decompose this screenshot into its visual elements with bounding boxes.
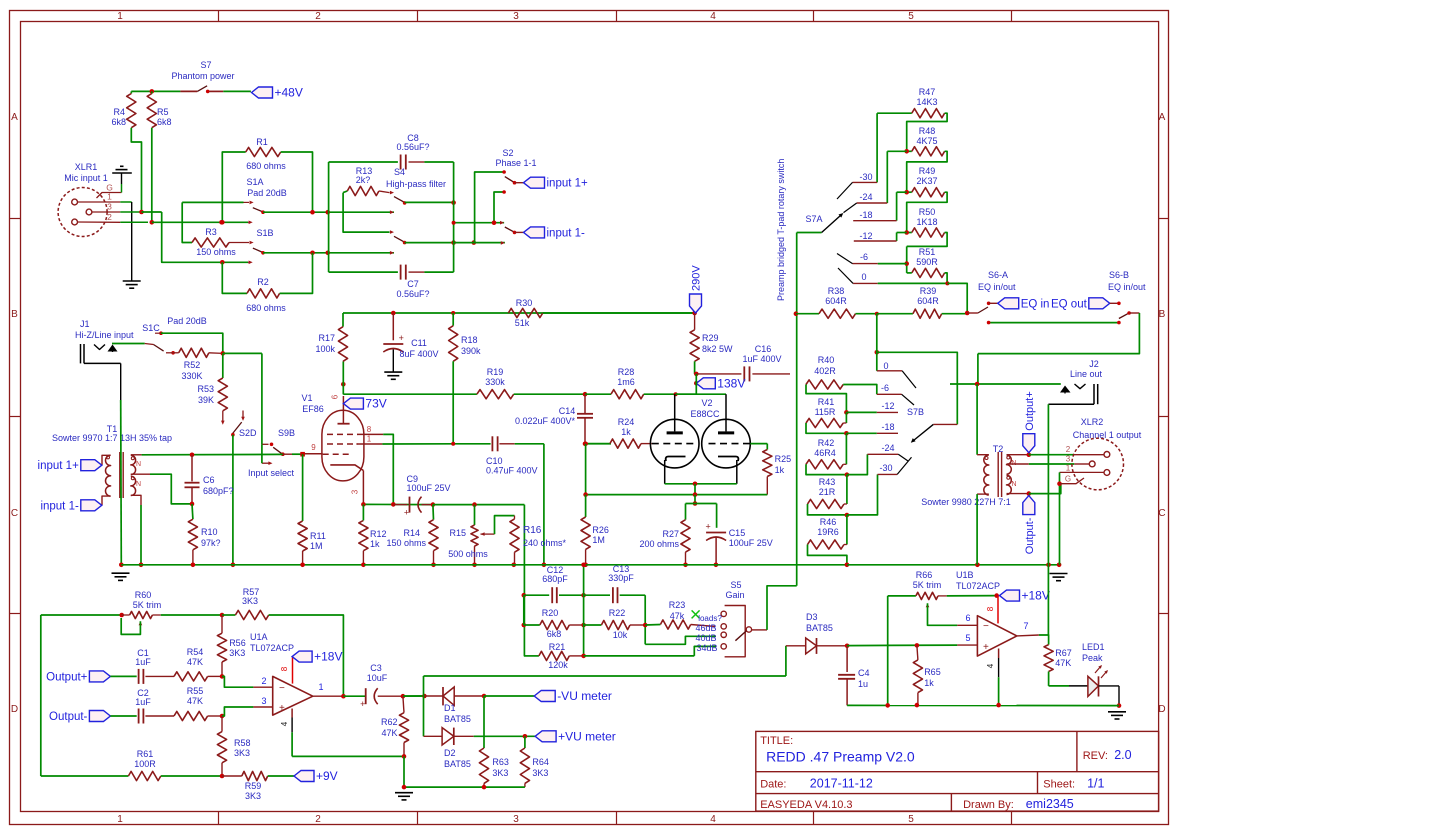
wire R51 jog to 0	[945, 273, 948, 284]
capacitor C7	[329, 271, 398, 273]
svg-text:XLR2: XLR2	[1081, 417, 1104, 427]
svg-text:1: 1	[367, 435, 372, 444]
svg-text:0.022uF 400V*: 0.022uF 400V*	[515, 416, 576, 426]
svg-text:N: N	[1012, 481, 1017, 488]
svg-text:Preamp bridged T-pad rotary sw: Preamp bridged T-pad rotary switch	[776, 159, 786, 301]
capacitor C13	[581, 593, 586, 598]
resistor R57	[222, 614, 235, 616]
svg-text:47K: 47K	[381, 728, 397, 738]
V1 plate	[338, 423, 350, 425]
wire R4 to pin3 node	[131, 128, 141, 212]
resistor R20	[522, 623, 527, 628]
svg-text:3K3: 3K3	[234, 748, 250, 758]
svg-text:19R6: 19R6	[817, 527, 839, 537]
junction -24	[845, 472, 850, 477]
wire -30 column	[876, 113, 878, 182]
svg-text:3K3: 3K3	[242, 596, 258, 606]
svg-text:Pad 20dB: Pad 20dB	[247, 188, 287, 198]
svg-text:115R: 115R	[815, 407, 836, 417]
resistor R12	[359, 520, 368, 550]
wire to pin 3	[222, 707, 253, 716]
junction R55 right	[220, 714, 225, 719]
sheet border frame	[10, 11, 1169, 825]
svg-text:390k: 390k	[461, 346, 481, 356]
junction R28 right	[674, 392, 678, 396]
V1 grid g3 dashed	[327, 433, 358, 435]
ground below LED	[1108, 711, 1126, 713]
svg-text:34dB: 34dB	[696, 643, 717, 653]
svg-text:1k: 1k	[924, 678, 934, 688]
wire C8-C7 right column	[453, 162, 455, 272]
svg-text:R54: R54	[187, 647, 204, 657]
svg-text:680 ohms: 680 ohms	[246, 161, 286, 171]
capacitor C12	[522, 593, 527, 598]
svg-text:3: 3	[351, 489, 360, 494]
capacitor C11	[391, 311, 396, 316]
svg-text:EQ out: EQ out	[1051, 298, 1088, 310]
svg-text:604R: 604R	[825, 296, 847, 306]
svg-text:680pF?: 680pF?	[203, 486, 234, 496]
resistor R13	[343, 191, 347, 193]
wire C12 column	[523, 595, 525, 625]
U1A pin 8 power	[292, 657, 294, 684]
wire C13 right jog	[644, 595, 646, 644]
svg-text:V1: V1	[301, 393, 312, 403]
svg-text:138V: 138V	[717, 376, 745, 390]
net flag Output- at T2	[1027, 491, 1032, 496]
svg-text:Gain: Gain	[725, 590, 744, 600]
wire to -VU flag	[484, 695, 534, 697]
svg-text:R14: R14	[403, 528, 420, 538]
svg-text:R17: R17	[318, 333, 335, 343]
svg-text:C11: C11	[411, 338, 427, 348]
wire C10 right down	[543, 444, 545, 565]
wire left column	[40, 615, 42, 776]
svg-text:2: 2	[1066, 445, 1071, 454]
junction R19-C14	[583, 392, 588, 397]
svg-text:+: +	[360, 699, 365, 709]
svg-text:1M: 1M	[592, 535, 605, 545]
svg-text:R50: R50	[919, 207, 936, 217]
svg-text:240 ohms*: 240 ohms*	[523, 538, 567, 548]
svg-text:R42: R42	[818, 438, 835, 448]
trimmer R60	[119, 613, 124, 618]
resistor R61	[41, 775, 129, 777]
svg-text:input 1-: input 1-	[40, 500, 79, 512]
svg-text:S1C: S1C	[142, 323, 160, 333]
capacitor C2	[110, 715, 136, 717]
svg-text:EQ in/out: EQ in/out	[1108, 282, 1146, 292]
net flag input 1+	[524, 177, 545, 188]
svg-text:5K trim: 5K trim	[913, 580, 942, 590]
wire -6 column	[906, 246, 908, 273]
T2 secondary top lead	[1007, 454, 1029, 456]
svg-text:10uF: 10uF	[367, 673, 388, 683]
svg-text:C: C	[1158, 508, 1165, 519]
svg-text:R55: R55	[187, 686, 204, 696]
U1B pin 8 power	[994, 593, 999, 598]
svg-text:R52: R52	[184, 360, 201, 370]
wire S6-B return	[978, 313, 1140, 354]
resistor R48	[907, 150, 912, 152]
resistor R29	[694, 313, 696, 330]
wire pin7 to R67	[1039, 635, 1049, 645]
svg-text:330K: 330K	[181, 371, 202, 381]
svg-text:−: −	[279, 683, 285, 694]
junction D1 right	[482, 694, 487, 699]
net flag 290V	[692, 311, 697, 316]
svg-text:4: 4	[710, 814, 716, 825]
svg-text:S9B: S9B	[278, 428, 295, 438]
svg-text:R16: R16	[523, 525, 542, 536]
wire 0 row to S6A	[878, 282, 948, 284]
svg-text:C4: C4	[858, 668, 870, 678]
resistor R51	[912, 268, 945, 277]
wire center tap	[150, 474, 192, 504]
wire cathode row right	[433, 504, 525, 506]
resistor R23	[645, 624, 660, 627]
svg-text:R5: R5	[157, 107, 169, 117]
wire J2 sleeve down	[1047, 404, 1049, 635]
pin 2 lead	[78, 221, 121, 223]
svg-text:-12: -12	[859, 231, 872, 241]
svg-text:-6: -6	[881, 383, 889, 393]
svg-text:R59: R59	[245, 781, 262, 791]
svg-text:500 ohms: 500 ohms	[448, 549, 488, 559]
switch S5 bracket	[725, 606, 746, 657]
svg-text:C: C	[11, 508, 18, 519]
svg-text:6: 6	[965, 613, 970, 623]
node pin3 junction	[139, 210, 144, 215]
net flag EQ out	[1089, 298, 1110, 309]
ground below C11	[384, 371, 402, 373]
svg-text:S7: S7	[200, 60, 211, 70]
wire -24 column	[887, 150, 906, 152]
svg-text:+VU meter: +VU meter	[558, 729, 616, 743]
wire down to R42 right	[845, 433, 847, 464]
svg-text:REV:: REV:	[1083, 750, 1108, 762]
svg-text:LED1: LED1	[1082, 642, 1105, 652]
svg-text:39K: 39K	[198, 395, 214, 405]
no-connect X	[692, 610, 700, 618]
svg-text:R49: R49	[919, 166, 936, 176]
svg-text:Sheet:: Sheet:	[1043, 779, 1075, 791]
svg-text:1uF 400V: 1uF 400V	[742, 354, 781, 364]
svg-text:1k: 1k	[370, 539, 380, 549]
svg-text:S7A: S7A	[805, 214, 822, 224]
svg-text:330k: 330k	[485, 377, 505, 387]
svg-text:EASYEDA V4.10.3: EASYEDA V4.10.3	[760, 799, 852, 811]
svg-text:Channel 1 output: Channel 1 output	[1073, 430, 1142, 440]
XLR2 pin G lead	[1060, 478, 1085, 484]
diode D3	[786, 645, 806, 647]
svg-text:Output+: Output+	[46, 671, 88, 683]
wire D3 row to R65 and pin5	[847, 644, 957, 647]
wire plate row to R19	[343, 393, 477, 395]
wire to XLR pin3	[1029, 463, 1075, 465]
svg-text:Pad 20dB: Pad 20dB	[167, 316, 207, 326]
svg-text:Date:: Date:	[760, 779, 786, 791]
svg-text:S5: S5	[730, 580, 741, 590]
svg-text:100R: 100R	[134, 759, 156, 769]
svg-text:G: G	[1065, 475, 1071, 484]
svg-text:51k: 51k	[515, 318, 530, 328]
svg-text:+: +	[983, 642, 989, 653]
svg-text:C6: C6	[203, 475, 215, 485]
net flag -VU meter	[534, 691, 555, 702]
wire T1 bottom to bus	[140, 505, 142, 565]
net flag +9V	[294, 771, 314, 782]
wire jack sleeve to ground	[120, 363, 122, 400]
R15 wiper	[481, 532, 485, 536]
net flag input 1- at T1	[81, 500, 102, 511]
wire output row to diodes	[404, 695, 424, 697]
svg-text:0.47uF 400V: 0.47uF 400V	[486, 466, 538, 476]
svg-text:−: −	[983, 621, 989, 632]
resistor R21	[524, 655, 539, 657]
svg-text:1uF: 1uF	[135, 657, 151, 667]
svg-text:3: 3	[107, 202, 112, 212]
wire bottom gnd row	[404, 786, 525, 788]
svg-text:N: N	[136, 481, 141, 488]
T1 primary bottom lead	[102, 496, 111, 505]
svg-text:290V: 290V	[691, 265, 703, 291]
resistor R65	[917, 645, 918, 660]
svg-text:-18: -18	[881, 422, 894, 432]
resistor R59	[222, 775, 242, 777]
svg-text:6: 6	[331, 394, 340, 399]
svg-text:3: 3	[261, 696, 266, 706]
svg-text:S7B: S7B	[907, 407, 924, 417]
svg-text:680pF: 680pF	[542, 574, 568, 584]
svg-text:R4: R4	[113, 107, 125, 117]
svg-text:3K3: 3K3	[532, 768, 548, 778]
pin 3 lead	[92, 211, 120, 213]
T1 center tap lead	[131, 473, 150, 475]
svg-text:2: 2	[315, 11, 321, 22]
wire R13 bottom row	[343, 193, 389, 233]
wire LED return	[1099, 685, 1120, 687]
wire pin3 row	[142, 211, 162, 213]
svg-text:B: B	[11, 309, 18, 320]
svg-text:C3: C3	[370, 663, 382, 673]
svg-text:R15: R15	[449, 528, 466, 538]
svg-text:S1A: S1A	[246, 177, 263, 187]
svg-text:R10: R10	[201, 527, 218, 537]
resistor R4	[130, 91, 132, 93]
wire R66 left column	[887, 596, 889, 706]
svg-text:R12: R12	[370, 529, 387, 539]
wire pin2 row	[152, 221, 248, 223]
wire S1A top throw	[182, 201, 243, 203]
switch S2 section B	[505, 227, 514, 232]
wire to R27/C15	[694, 495, 696, 504]
T1 secondary bottom lead	[131, 495, 141, 505]
svg-text:R24: R24	[618, 417, 635, 427]
junction C14 bottom R24	[583, 442, 588, 447]
svg-text:-18: -18	[859, 210, 872, 220]
switch S5 arm	[746, 627, 751, 632]
svg-text:8k2 5W: 8k2 5W	[702, 344, 733, 354]
svg-text:input 1-: input 1-	[547, 227, 586, 239]
svg-text:402R: 402R	[814, 366, 836, 376]
svg-text:R61: R61	[137, 749, 154, 759]
svg-text:Drawn By:: Drawn By:	[963, 799, 1014, 811]
V2 right grid dashed	[709, 443, 751, 445]
svg-text:E88CC: E88CC	[690, 409, 720, 419]
ground bus right section	[847, 564, 1059, 566]
svg-text:14K3: 14K3	[916, 97, 937, 107]
svg-text:Output+: Output+	[1024, 391, 1036, 430]
junction -12	[844, 410, 849, 415]
wire S1C top throw	[161, 333, 223, 353]
svg-text:R26: R26	[592, 525, 609, 535]
svg-text:emi2345: emi2345	[1026, 797, 1074, 811]
resistor R62	[403, 696, 404, 713]
switch S4 section B	[390, 230, 394, 234]
svg-text:3: 3	[1066, 455, 1071, 464]
net flag Output+ (feedback in)	[89, 671, 110, 682]
resistor R26	[585, 495, 587, 517]
svg-text:2: 2	[107, 212, 112, 222]
svg-text:TITLE:: TITLE:	[760, 735, 793, 747]
U1A pin 1 out	[313, 695, 344, 697]
svg-text:+18V: +18V	[314, 650, 342, 664]
resistor R17	[342, 313, 344, 327]
svg-text:5K trim: 5K trim	[133, 600, 162, 610]
svg-text:R53: R53	[197, 384, 214, 394]
svg-text:U1B: U1B	[956, 570, 974, 580]
svg-text:200 ohms: 200 ohms	[639, 539, 679, 549]
svg-text:D: D	[11, 704, 18, 715]
resistor R10	[191, 504, 194, 519]
ground top XLR (inverted)	[112, 172, 132, 174]
wire R57 right to pin1	[269, 615, 344, 696]
svg-text:2K37: 2K37	[916, 176, 937, 186]
wire long row to D3	[785, 646, 787, 676]
svg-text:100k: 100k	[315, 344, 335, 354]
wire cathodes join	[665, 483, 737, 485]
switch S9B	[270, 443, 274, 447]
capacitor C8	[329, 161, 398, 163]
resistor R38	[796, 313, 819, 315]
svg-text:+: +	[279, 703, 285, 714]
resistor R16	[514, 516, 516, 519]
wire pin1/G ground column	[1059, 472, 1061, 564]
resistor R22	[584, 624, 602, 626]
svg-text:R64: R64	[532, 757, 549, 767]
capacitor C14	[584, 394, 586, 414]
wire pin8	[383, 434, 393, 504]
wire down to R46 right	[846, 515, 848, 545]
wire S1A common row	[263, 211, 394, 213]
svg-text:Peak: Peak	[1082, 653, 1103, 663]
wire C13 to 40dB	[645, 636, 716, 644]
title block	[756, 731, 1159, 811]
switch S4 section A	[390, 191, 394, 195]
U1A pin 4	[291, 709, 293, 718]
svg-text:S6-B: S6-B	[1109, 270, 1129, 280]
U1B pin 4	[998, 649, 1000, 659]
svg-text:C16: C16	[755, 344, 772, 354]
svg-text:R25: R25	[775, 454, 792, 464]
svg-text:Output-: Output-	[49, 711, 88, 723]
svg-text:BAT85: BAT85	[444, 714, 471, 724]
junction mid	[875, 312, 879, 316]
svg-text:40dB: 40dB	[695, 633, 716, 643]
net flag Output+ at T2	[1027, 452, 1032, 457]
V2 left grid dashed	[652, 443, 698, 445]
node pin2 junction	[150, 220, 155, 225]
wire top row to R60	[41, 614, 122, 616]
svg-text:B: B	[1159, 309, 1166, 320]
wire 0 level right	[876, 352, 878, 371]
wire V2 plate row	[676, 393, 726, 395]
V1 grid g1 dashed	[323, 453, 352, 455]
svg-text:150 ohms: 150 ohms	[196, 247, 236, 257]
svg-text:R22: R22	[609, 608, 626, 618]
svg-text:Phantom power: Phantom power	[171, 71, 234, 81]
wire R50 jog	[907, 233, 947, 247]
svg-text:150 ohms: 150 ohms	[386, 538, 426, 548]
svg-text:V2: V2	[701, 398, 712, 408]
connector XLR1	[58, 188, 107, 237]
resistor R1	[222, 152, 245, 222]
wire R42 left jog	[806, 464, 846, 474]
svg-text:9: 9	[311, 443, 316, 452]
svg-text:1: 1	[318, 682, 323, 692]
svg-text:R66: R66	[916, 570, 933, 580]
svg-text:6k8: 6k8	[547, 629, 562, 639]
svg-text:1: 1	[117, 11, 123, 22]
net flag EQ in	[998, 298, 1019, 309]
wire S4A common	[405, 201, 454, 203]
svg-text:46R4: 46R4	[814, 448, 836, 458]
capacitor C4	[846, 646, 848, 672]
svg-text:+9V: +9V	[316, 769, 338, 783]
resistor R3	[182, 202, 192, 242]
svg-text:High-pass filter: High-pass filter	[386, 179, 446, 189]
pin G lead	[97, 193, 122, 199]
resistor R55	[174, 711, 208, 720]
svg-text:REDD .47 Preamp V2.0: REDD .47 Preamp V2.0	[766, 749, 915, 765]
switch S7	[197, 86, 207, 92]
wire mid column	[583, 565, 585, 656]
wire R5 to pin2 node	[151, 128, 153, 223]
svg-text:R20: R20	[542, 608, 559, 618]
wire 290V rail	[343, 312, 695, 314]
svg-text:10k: 10k	[613, 630, 628, 640]
svg-text:R27: R27	[662, 529, 679, 539]
svg-text:1k: 1k	[775, 465, 785, 475]
svg-text:0: 0	[883, 361, 888, 371]
svg-text:R40: R40	[818, 355, 835, 365]
svg-text:loads?: loads?	[698, 614, 722, 623]
svg-text:TL072ACP: TL072ACP	[956, 581, 1000, 591]
svg-text:R60: R60	[135, 590, 152, 600]
wire S7A common column	[796, 233, 798, 586]
wire R47 jog	[907, 113, 947, 151]
svg-text:Phase 1-1: Phase 1-1	[495, 158, 536, 168]
svg-text:1K18: 1K18	[916, 217, 937, 227]
svg-text:R62: R62	[381, 717, 398, 727]
svg-text:Line out: Line out	[1070, 369, 1103, 379]
wire to S9B	[223, 352, 262, 354]
svg-text:R23: R23	[669, 600, 686, 610]
resistor R41	[845, 412, 847, 423]
wire S2 top throw	[475, 172, 505, 243]
net flag Output- (feedback in)	[89, 711, 110, 722]
